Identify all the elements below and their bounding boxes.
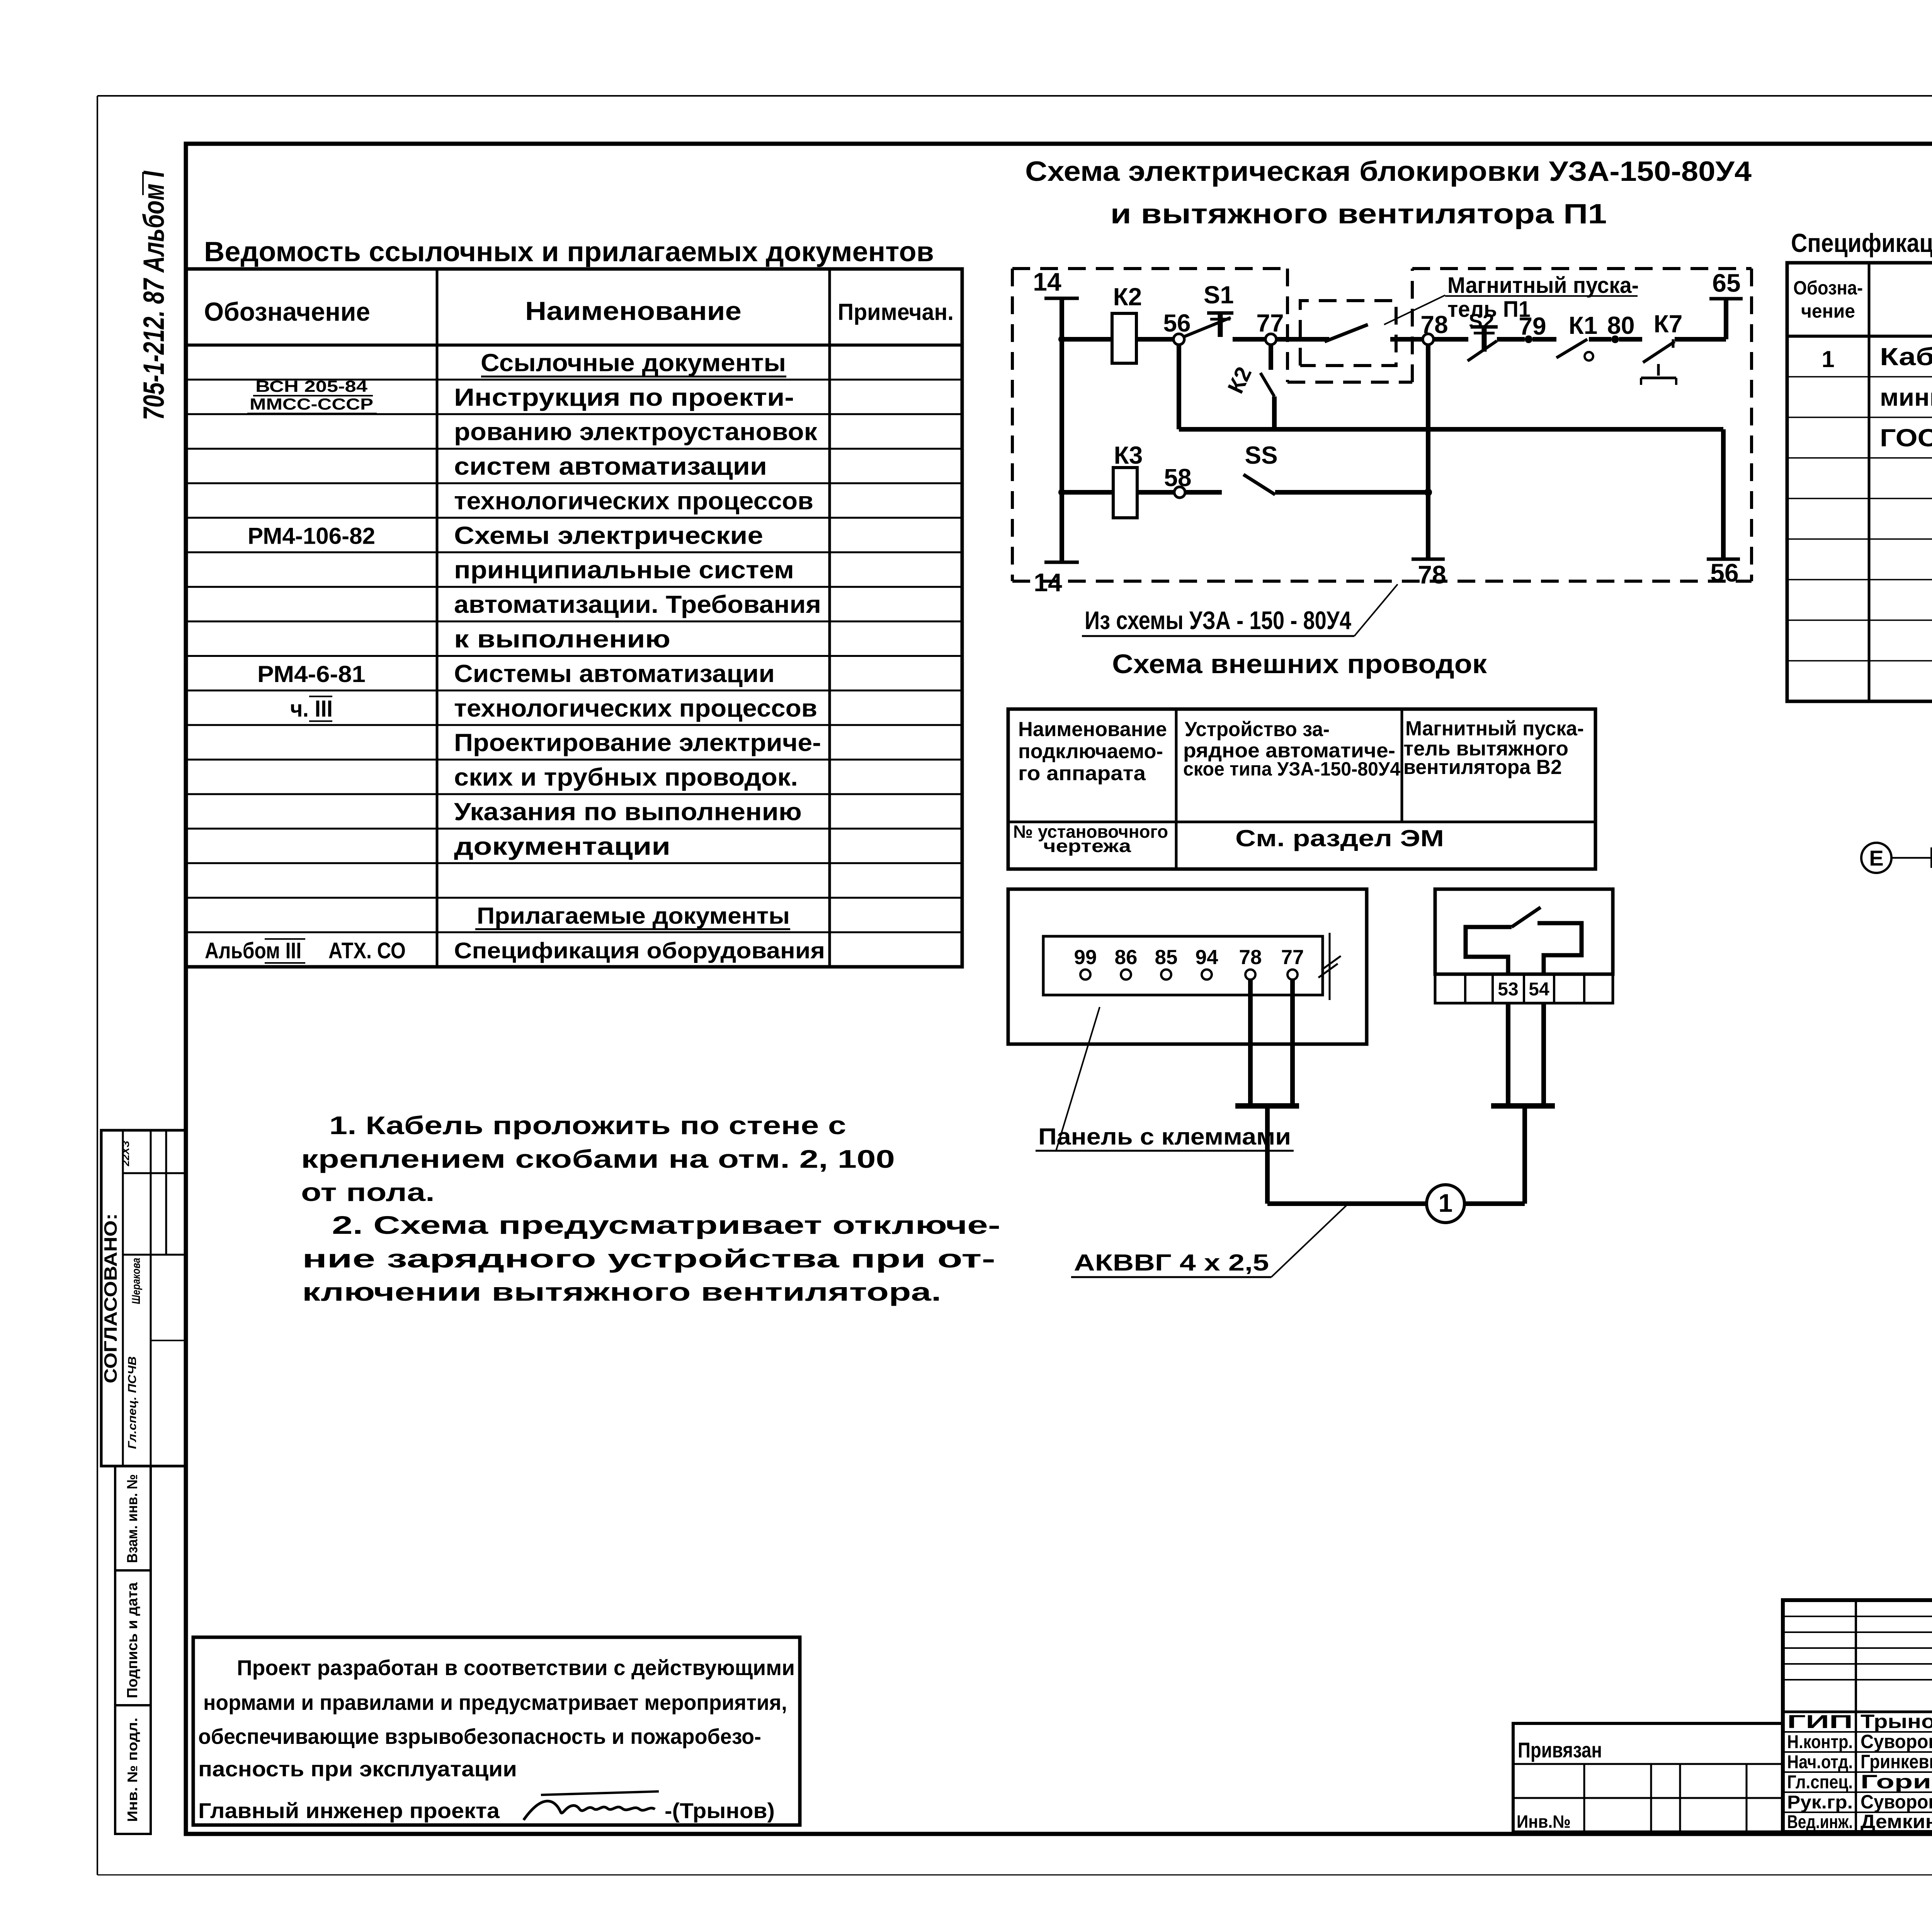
svg-text:ключении вытяжного вентилятора: ключении вытяжного вентилятора. [302,1277,941,1306]
svg-text:го аппарата: го аппарата [1018,762,1146,785]
svg-text:14: 14 [1034,568,1062,597]
svg-text:14: 14 [1033,267,1061,296]
svg-text:Прилагаемые документы: Прилагаемые документы [477,903,790,929]
svg-text:65: 65 [1712,269,1740,297]
label: АКВВГ 4 х 2,5 [1071,1206,1346,1277]
svg-text:СОГЛАСОВАНО:: СОГЛАСОВАНО: [100,1213,121,1383]
svg-text:78: 78 [1239,946,1262,969]
svg-text:технологических процессов: технологических процессов [454,694,817,722]
wire: bypass rung from node 56 [1179,345,1723,559]
svg-text:Наименование: Наименование [525,296,742,326]
svg-text:ВСН 205-84: ВСН 205-84 [255,377,368,395]
svg-text:технологических процессов: технологических процессов [454,487,813,515]
svg-text:53: 53 [1498,979,1518,1000]
svg-text:Магнитный пуска-: Магнитный пуска- [1447,273,1639,298]
wires from terminals 53 54 [1508,1003,1544,1104]
svg-text:79: 79 [1519,312,1546,340]
svg-text:АКВВГ 4 х 2,5: АКВВГ 4 х 2,5 [1074,1250,1269,1276]
terminal strip [1043,936,1323,995]
node 58 [1164,464,1191,498]
svg-text:1: 1 [1439,1189,1453,1217]
svg-text:Взам. инв. №: Взам. инв. № [124,1474,141,1563]
dashed boundary of device UZA-150-80U4 [1012,269,1752,581]
svg-text:Указания по выполнению: Указания по выполнению [454,798,802,825]
terminal 99 [1074,946,1097,980]
svg-text:креплением скобами на отм. 2,: креплением скобами на отм. 2, 100 [301,1145,895,1173]
wire [1434,337,1468,342]
svg-text:Трынов: Трынов [1861,1711,1932,1732]
svg-text:S2: S2 [1469,310,1494,333]
svg-text:Панель с клеммами: Панель с клеммами [1038,1124,1291,1150]
svg-text:Е: Е [1869,846,1883,870]
svg-text:автоматизации. Требования: автоматизации. Требования [454,590,821,618]
svg-text:ч. III: ч. III [290,696,333,721]
specification table title [1791,228,1932,258]
specification table rows [1821,343,1932,452]
svg-text:Примечан.: Примечан. [838,299,954,325]
specification table grid [1787,263,1932,701]
starter contact blade (П1) [1325,325,1423,342]
svg-text:54: 54 [1529,979,1549,1000]
cable gland bar (panel side) [1235,1103,1299,1109]
wire from terminal 77 [1290,980,1295,1104]
svg-text:80: 80 [1607,311,1634,339]
terminal 94 [1196,946,1218,980]
title block upper rows [1783,1616,1932,1680]
svg-text:систем автоматизации: систем автоматизации [454,452,767,480]
svg-text:Из схемы УЗА - 150 - 80У4: Из схемы УЗА - 150 - 80У4 [1085,606,1351,634]
specification table headers [1793,277,1932,322]
svg-text:22ХЗ: 22ХЗ [120,1141,131,1167]
svg-text:2. Схема предусматривает отклю: 2. Схема предусматривает отключе- [332,1211,1000,1239]
left margin approval block [100,1130,185,1466]
svg-text:94: 94 [1196,946,1218,969]
svg-text:Схема электрическая блокировки: Схема электрическая блокировки УЗА-150-8… [1025,156,1752,187]
switch S1 [1184,281,1234,337]
svg-text:Инв. № подл.: Инв. № подл. [124,1718,140,1822]
svg-text:Схема внешних проводок: Схема внешних проводок [1112,649,1487,679]
svg-text:чение: чение [1801,300,1855,322]
svg-text:пасность при эксплуатации: пасность при эксплуатации [198,1757,517,1781]
cable gland bar (starter side) [1491,1103,1555,1109]
node 78 (bottom terminal) [1412,559,1446,589]
terminal 85 [1155,946,1178,980]
svg-text:Спецификация основных монтажны: Спецификация основных монтажных материал… [1791,228,1932,258]
node 14 (bottom terminal) [1034,562,1079,597]
svg-text:ское типа УЗА-150-80У4: ское типа УЗА-150-80У4 [1183,758,1400,780]
node 56 (bottom right terminal) [1707,558,1740,587]
svg-text:Рук.гр.: Рук.гр. [1787,1792,1853,1813]
svg-text:85: 85 [1155,946,1178,969]
node 77 [1256,309,1284,345]
schematic title [1025,156,1752,230]
svg-text:Горин: Горин [1861,1771,1932,1793]
svg-text:К7: К7 [1654,310,1683,338]
svg-text:См. раздел ЭМ: См. раздел ЭМ [1235,825,1444,851]
svg-text:-(Трынов): -(Трынов) [665,1798,775,1823]
starter box outline [1435,889,1613,974]
svg-text:Системы автоматизации: Системы автоматизации [454,660,775,687]
cable number circle 1 [1427,1185,1464,1223]
svg-text:вентилятора В2: вентилятора В2 [1403,756,1562,779]
reference documents table title [204,236,934,267]
wire [1233,337,1265,342]
svg-text:ГИП: ГИП [1787,1712,1853,1732]
wire: vertical from node 78 [1424,345,1432,559]
wire [1185,490,1222,495]
switch SS [1243,441,1278,495]
vertical album designation 705-1-212.87 [138,170,170,420]
relay contact K2 (self-hold) [1223,345,1274,429]
svg-text:К2: К2 [1223,363,1257,397]
svg-text:К1: К1 [1569,311,1598,339]
wire into starter contact [1276,337,1329,342]
attachment box [1513,1723,1783,1832]
label: Панель с клеммами [1036,1007,1294,1151]
pushbutton contact K7 [1641,310,1682,385]
svg-text:Суворова: Суворова [1861,1731,1932,1752]
reference table headers [204,296,954,327]
svg-text:ММСС-СССР: ММСС-СССР [250,395,373,413]
svg-text:Наименование: Наименование [1018,718,1167,741]
svg-text:Проект разработан в соответств: Проект разработан в соответствии с дейст… [237,1655,795,1680]
reference documents table grid [186,269,962,967]
svg-text:1: 1 [1821,346,1834,372]
svg-text:Вед.инж.: Вед.инж. [1787,1812,1853,1832]
svg-text:77: 77 [1256,309,1284,337]
svg-text:Гл.спец. ПСЧВ: Гл.спец. ПСЧВ [126,1356,139,1449]
svg-text:Гринкевич: Гринкевич [1861,1751,1932,1772]
svg-text:86: 86 [1115,946,1138,969]
svg-text:Привязан: Привязан [1518,1738,1602,1762]
main drawing frame [186,144,1932,1834]
svg-text:Ссылочные документы: Ссылочные документы [481,349,786,376]
terminal panel outline [1008,889,1367,1044]
wall pilaster at axis E [1932,849,1932,867]
cable run to starter [1464,1108,1525,1204]
svg-text:S1: S1 [1204,281,1234,309]
starter terminal row [1435,974,1613,1003]
left margin inventory boxes [115,1466,151,1834]
wire to node 65 [1675,299,1726,339]
wiring table texts [1013,717,1584,856]
title block signature columns [1856,1600,1932,1832]
title block signature texts [1787,1711,1932,1832]
svg-text:1. Кабель проложить по стене с: 1. Кабель проложить по стене с [329,1111,846,1140]
svg-text:обеспечивающие взрывобезопасно: обеспечивающие взрывобезопасность и пожа… [198,1724,761,1749]
svg-text:Альбом III: Альбом III [205,938,301,963]
wire [1136,337,1173,342]
svg-text:ГОСТ 1508-78*Е: ГОСТ 1508-78*Е [1880,424,1932,452]
node 79 (junction) [1519,312,1546,343]
svg-text:Магнитный пуска-: Магнитный пуска- [1405,717,1584,740]
svg-text:Инструкция по проекти-: Инструкция по проекти- [454,383,794,411]
svg-text:миниевый АКВВГ 4 х 2,5: миниевый АКВВГ 4 х 2,5 [1880,383,1932,411]
dashed box of magnetic starter contact [1300,301,1396,366]
svg-text:78: 78 [1418,560,1446,589]
title block outline [1783,1600,1932,1832]
reference table rows text [205,349,825,963]
svg-text:рованию электроустановок: рованию электроустановок [454,418,818,446]
svg-text:принципиальные систем: принципиальные систем [454,556,794,584]
svg-text:77: 77 [1281,946,1304,969]
svg-text:РМ4-6-81: РМ4-6-81 [257,661,366,687]
svg-text:и вытяжного вентилятора П1: и вытяжного вентилятора П1 [1111,199,1607,230]
svg-text:ние зарядного устройства при о: ние зарядного устройства при от- [302,1244,995,1273]
wire from terminal 78 [1248,980,1253,1104]
title block signature rows [1783,1712,1932,1812]
wire [1497,337,1525,342]
svg-text:РМ4-106-82: РМ4-106-82 [248,523,375,549]
svg-text:Суворова: Суворова [1861,1791,1932,1813]
svg-text:Нач.отд.: Нач.отд. [1787,1752,1853,1772]
svg-text:подключаемо-: подключаемо- [1018,740,1163,763]
wire: top rung from bus to coil K2 [1058,336,1112,343]
axis E circle [1861,843,1932,873]
wire: left vertical bus [1060,298,1064,562]
terminal 86 [1115,946,1138,980]
svg-text:документации: документации [454,832,670,860]
node 14 (top terminal) [1033,267,1079,298]
svg-text:Устройство за-: Устройство за- [1185,718,1330,741]
node 65 (top terminal) [1709,269,1743,299]
svg-text:К3: К3 [1114,441,1143,469]
wiring table grid [1008,709,1595,869]
svg-text:Проектирование электриче-: Проектирование электриче- [454,729,821,757]
svg-text:Инв.№: Инв.№ [1517,1812,1571,1832]
svg-text:705-1-212. 87 Альбом I: 705-1-212. 87 Альбом I [138,170,170,420]
svg-text:к выполнению: к выполнению [454,625,670,653]
wire [1619,337,1642,342]
svg-text:99: 99 [1074,946,1097,969]
svg-text:Обозна-: Обозна- [1793,277,1863,299]
svg-text:SS: SS [1245,441,1277,469]
svg-text:Кабель контрольный алю-: Кабель контрольный алю- [1880,343,1932,371]
node 80 (junction) [1607,311,1634,343]
wire to node 78 vertical [1275,490,1428,495]
svg-text:нормами и правилами и предусма: нормами и правилами и предусматривает ме… [203,1690,787,1715]
statement box [193,1637,800,1825]
switch S2 [1468,310,1498,361]
svg-text:78: 78 [1420,311,1448,338]
svg-text:Гл.спец.: Гл.спец. [1787,1772,1853,1793]
node 78 [1420,311,1448,345]
wire [1137,490,1174,495]
cable run to circle 1 [1267,1109,1427,1204]
svg-text:Ведомость ссылочных и прилагае: Ведомость ссылочных и прилагаемых докуме… [204,236,934,267]
svg-text:Спецификация оборудования: Спецификация оборудования [454,938,825,963]
svg-text:56: 56 [1163,309,1190,337]
relay coil K3 [1113,441,1143,518]
section title: Схема внешних проводок [1112,649,1487,679]
terminal 77 [1281,946,1304,980]
relay contact K1 [1556,311,1611,361]
relay coil K2 [1112,283,1142,363]
svg-text:Н.контр.: Н.контр. [1787,1732,1853,1752]
break mark [1318,933,1341,1000]
label: Магнитный пускатель П1 [1384,273,1639,325]
wire [1532,337,1556,342]
svg-text:Шеракова: Шеракова [130,1258,143,1304]
wire: third rung from bus to coil K3 [1058,489,1113,496]
svg-text:56: 56 [1710,558,1738,587]
svg-text:58: 58 [1164,464,1191,492]
svg-text:Схемы электрические: Схемы электрические [454,521,763,549]
svg-text:К2: К2 [1113,283,1142,311]
svg-text:от пола.: от пола. [301,1178,435,1206]
starter internal contact [1466,907,1582,974]
label: Из схемы УЗА-150-80У4 [1082,584,1398,636]
terminal 78 [1239,946,1262,980]
svg-text:Главный инженер проекта: Главный инженер проекта [198,1798,500,1823]
svg-text:Подпись и дата: Подпись и дата [124,1582,141,1698]
svg-text:Демкина: Демкина [1861,1811,1932,1832]
svg-text:ских и трубных проводок.: ских и трубных проводок. [454,763,798,791]
svg-text:АТХ. СО: АТХ. СО [328,938,406,963]
svg-text:чертежа: чертежа [1043,836,1131,856]
notes text [301,1111,1000,1306]
node 56 [1163,309,1190,345]
svg-text:Обозначение: Обозначение [204,297,370,327]
